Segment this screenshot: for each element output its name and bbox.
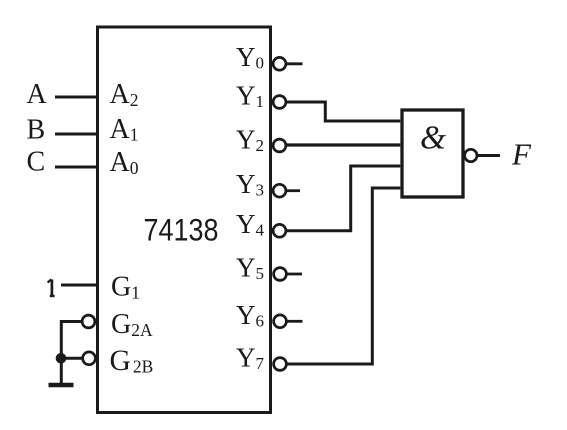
svg-text:Y3: Y3 [236, 169, 264, 200]
svg-text:A1: A1 [110, 114, 139, 145]
svg-text:Y0: Y0 [236, 42, 264, 73]
svg-text:Y7: Y7 [236, 343, 265, 374]
svg-text:Y2: Y2 [236, 125, 264, 156]
svg-text:74138: 74138 [144, 212, 219, 248]
svg-text:A0: A0 [110, 147, 139, 178]
svg-text:G2B: G2B [110, 345, 154, 377]
svg-text:Y6: Y6 [236, 300, 264, 331]
svg-text:F: F [511, 136, 532, 171]
svg-text:Y5: Y5 [236, 253, 264, 284]
svg-text:B: B [27, 115, 46, 146]
svg-text:C: C [27, 147, 46, 178]
svg-text:A2: A2 [110, 79, 139, 110]
svg-text:A: A [27, 79, 48, 110]
svg-text:Y1: Y1 [236, 81, 264, 112]
svg-text:&: & [420, 120, 446, 157]
svg-text:G2A: G2A [111, 309, 153, 340]
svg-text:Y4: Y4 [236, 209, 265, 240]
svg-text:G1: G1 [111, 272, 140, 303]
